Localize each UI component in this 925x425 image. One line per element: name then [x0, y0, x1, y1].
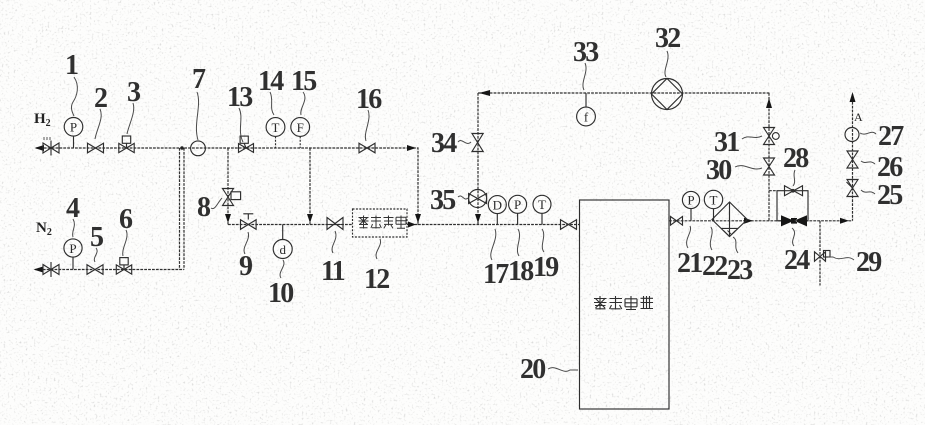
- humidifier text (CJK glyph strokes): [359, 216, 407, 229]
- wire N2 line: [35, 269, 184, 271]
- gauge F15: [291, 118, 310, 148]
- svg-text:10: 10: [268, 278, 293, 309]
- valve 30: [764, 158, 775, 175]
- wire vertical drop at x=418 (main to lower line): [413, 148, 418, 225]
- svg-text:25: 25: [877, 180, 902, 211]
- arrow right before right column: [840, 218, 849, 224]
- svg-text:8: 8: [197, 192, 211, 223]
- svg-text:F: F: [297, 120, 304, 135]
- svg-text:35: 35: [430, 185, 455, 216]
- solenoid valve 3: [119, 136, 134, 153]
- node N2 join on H2 line: [180, 146, 184, 150]
- valve H2 inlet shutoff: [43, 137, 59, 156]
- arrow down at x=478: [475, 214, 481, 223]
- arrow up vent outlet A: [850, 92, 856, 102]
- arrow up at top of x=769 drop: [766, 98, 772, 108]
- svg-text:P: P: [69, 241, 76, 256]
- svg-text:7: 7: [192, 64, 206, 95]
- wire N2 riser left: [179, 148, 181, 270]
- valve 8 with actuator: [223, 189, 241, 206]
- svg-text:D: D: [493, 197, 502, 212]
- fuel cell box 20: [580, 200, 670, 409]
- svg-text:P: P: [687, 193, 694, 208]
- svg-text:12: 12: [364, 264, 389, 295]
- svg-text:17: 17: [483, 259, 509, 290]
- svg-text:T: T: [272, 120, 280, 135]
- svg-text:d: d: [279, 242, 286, 257]
- wire recirculation right drop x=769: [768, 93, 770, 221]
- arrow right on main line before corner: [407, 145, 416, 151]
- arrow down at x=228: [225, 214, 231, 223]
- svg-text:9: 9: [239, 251, 252, 282]
- svg-text:P: P: [514, 197, 521, 212]
- solenoid valve 6: [116, 258, 131, 275]
- gauge T19: [533, 195, 551, 224]
- arrow down at x=418 joining lower line: [415, 214, 421, 223]
- gauge d10: [273, 225, 292, 259]
- valve 28: [785, 186, 803, 196]
- wire fuel cell outlet line: [669, 220, 853, 222]
- svg-text:30: 30: [706, 155, 731, 186]
- svg-text:T: T: [538, 197, 546, 212]
- svg-text:33: 33: [573, 37, 599, 68]
- wire lower-left line (humidifier branch): [228, 224, 353, 226]
- svg-text:T: T: [710, 192, 718, 207]
- gauge P1: [64, 118, 83, 149]
- gauge f33: [577, 93, 596, 126]
- svg-text:13: 13: [227, 82, 253, 113]
- svg-text:3: 3: [127, 77, 141, 108]
- svg-text:f: f: [584, 109, 589, 124]
- regulator valve 31: [764, 128, 780, 145]
- svg-text:27: 27: [878, 121, 904, 152]
- svg-text:29: 29: [856, 247, 881, 278]
- humidifier box 12: [353, 209, 408, 237]
- arrow right after separator: [744, 218, 753, 224]
- gauge P18: [509, 195, 527, 224]
- svg-text:22: 22: [702, 251, 727, 282]
- solenoid valve 13: [239, 136, 254, 152]
- svg-text:16: 16: [356, 84, 382, 115]
- N2 inlet arrow: [34, 267, 44, 273]
- svg-text:23: 23: [727, 255, 753, 286]
- check valve 34: [472, 134, 483, 152]
- svg-text:14: 14: [258, 66, 284, 97]
- wire N2 riser right: [183, 148, 185, 270]
- wire connector to backpressure box: [769, 190, 777, 192]
- valve 2: [88, 143, 104, 153]
- valve before fuel cell: [561, 220, 577, 230]
- valve 16: [359, 143, 375, 153]
- arrow left at end of top line: [479, 90, 490, 96]
- wire recirculation left drop x=478: [477, 93, 479, 225]
- gauge T22: [704, 190, 722, 221]
- wire vertical at x=228 (to valve 8): [227, 148, 229, 225]
- arrow down at x=310: [307, 214, 313, 223]
- ball valve 35: [469, 190, 487, 208]
- gauge P4: [64, 239, 82, 270]
- svg-text:24: 24: [784, 245, 810, 276]
- svg-text:21: 21: [677, 248, 702, 279]
- needle valve 25: [847, 180, 859, 197]
- gauge 27: [845, 128, 859, 142]
- wire vertical at x=310: [309, 148, 311, 225]
- svg-text:26: 26: [877, 152, 903, 183]
- svg-text:19: 19: [533, 252, 558, 283]
- gauge T14: [266, 118, 285, 148]
- separator 23: [712, 202, 747, 237]
- svg-text:20: 20: [520, 354, 545, 385]
- fuel cell text (CJK glyph strokes): [594, 296, 653, 310]
- svg-text:P: P: [70, 120, 77, 135]
- H2 inlet arrow: [35, 145, 45, 151]
- gauge D17: [488, 196, 506, 225]
- svg-text:11: 11: [321, 256, 345, 287]
- valve 5: [87, 265, 103, 275]
- drain valve 29: [815, 251, 831, 262]
- pump 32: [652, 79, 683, 110]
- outlet valve after fuel cell: [671, 217, 683, 226]
- wire humidifier outlet to junction: [407, 224, 418, 226]
- wire right column riser: [852, 94, 854, 221]
- backpressure valve 24 (solid): [781, 215, 807, 226]
- svg-text:31: 31: [714, 127, 739, 158]
- svg-text:32: 32: [655, 23, 680, 54]
- svg-text:18: 18: [508, 256, 534, 287]
- svg-text:28: 28: [783, 143, 809, 174]
- hand valve 9: [241, 214, 257, 230]
- svg-text:34: 34: [431, 128, 457, 159]
- arrow right from humidifier: [408, 222, 416, 228]
- svg-text:A: A: [854, 110, 863, 124]
- wire recirculation top line: [478, 92, 770, 94]
- mixer 7: [191, 141, 206, 156]
- valve 26: [847, 151, 858, 168]
- svg-text:1: 1: [65, 50, 78, 81]
- valve 11: [327, 218, 343, 230]
- gauge P21: [682, 191, 699, 220]
- valve N2 inlet shutoff: [43, 262, 59, 277]
- wire drain line x=820: [819, 221, 821, 286]
- wire H2 main line: [36, 147, 413, 149]
- wire anode feed line to fuel cell: [418, 224, 580, 226]
- backpressure box: [777, 191, 808, 221]
